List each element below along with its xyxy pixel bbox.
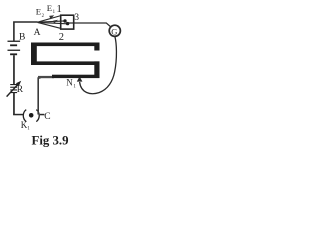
bottom wire to key: [13, 114, 24, 116]
box terminal dot 1: [63, 19, 66, 22]
wire battery to rheostat: [13, 55, 15, 84]
wire rheostat to key K1: [13, 92, 15, 115]
rheostat R ticks: [10, 84, 17, 93]
svg-text:2: 2: [59, 32, 64, 43]
potentiometer bar 2: [31, 61, 100, 65]
svg-text:1: 1: [56, 3, 62, 15]
svg-text:C: C: [44, 112, 50, 122]
wire battery top to node A: [13, 21, 37, 41]
cell arrow E2 line: [38, 16, 61, 23]
wire A to box corner 2: [38, 22, 61, 28]
key K1 plug: left paren: [23, 110, 26, 122]
svg-text:Fig 3.9: Fig 3.9: [32, 134, 69, 148]
svg-text:N: N: [66, 78, 73, 88]
key K1 plug: dot: [29, 113, 34, 118]
svg-text:B: B: [19, 32, 25, 42]
potentiometer right end strip: [94, 61, 99, 78]
wire key to C: [40, 114, 45, 116]
cell arrow E1 line: [38, 21, 65, 22]
potentiometer bar 3 (C end): [52, 75, 100, 78]
rheostat arrow: [7, 81, 22, 97]
box terminal dot 2: [66, 22, 69, 25]
wire A to terminal 2 of box: [38, 22, 68, 23]
wire C up to potentiometer bar3: [37, 77, 40, 114]
svg-text:R: R: [17, 85, 24, 95]
galvanometer G: [109, 25, 120, 36]
jockey arrowhead at N: [77, 76, 83, 81]
svg-text:3: 3: [74, 13, 79, 23]
svg-text:E: E: [47, 3, 52, 13]
E1 arrowhead: [53, 20, 58, 24]
key K1 plug: right paren: [36, 110, 39, 122]
potentiometer left end strip: [31, 43, 37, 66]
potentiometer bar 3 thin C-end section: [38, 76, 54, 78]
potentiometer right stub from bar 1: [94, 43, 99, 51]
potentiometer bar 1 (A end): [31, 43, 100, 47]
jockey wire G to N: [80, 37, 117, 94]
battery B: [8, 41, 21, 56]
two-way key box: [61, 15, 74, 29]
svg-text:A: A: [34, 28, 41, 38]
svg-text:E: E: [36, 7, 41, 17]
wire terminal 3 to G: [68, 23, 111, 27]
E2 arrowhead: [49, 15, 54, 19]
svg-text:G: G: [111, 26, 117, 36]
